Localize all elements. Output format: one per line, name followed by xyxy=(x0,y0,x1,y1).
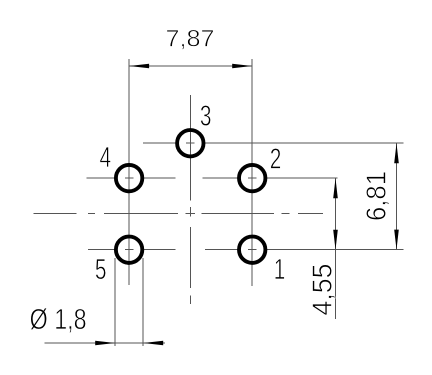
svg-text:4,55: 4,55 xyxy=(307,264,338,316)
svg-text:2: 2 xyxy=(270,143,282,175)
svg-text:6,81: 6,81 xyxy=(360,171,391,221)
svg-text:5: 5 xyxy=(95,254,107,286)
svg-text:3: 3 xyxy=(200,100,212,132)
svg-text:Ø 1,8: Ø 1,8 xyxy=(30,304,87,336)
svg-text:1: 1 xyxy=(274,254,286,286)
svg-text:7,87: 7,87 xyxy=(166,25,215,52)
svg-text:4: 4 xyxy=(100,142,112,174)
